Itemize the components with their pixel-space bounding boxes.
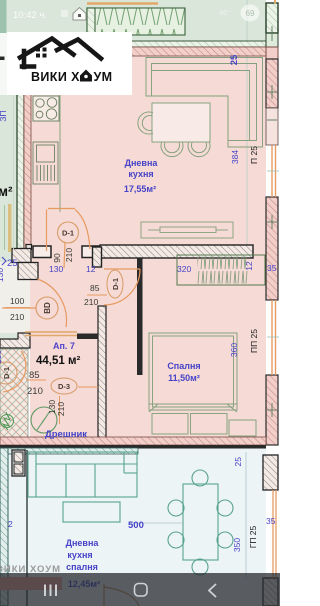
svg-text:85: 85 (29, 370, 40, 381)
wall hall/bedroom vertical (137, 258, 143, 375)
svg-text:130: 130 (0, 350, 3, 364)
svg-text:17,55м²: 17,55м² (124, 184, 156, 194)
svg-text:360: 360 (229, 343, 239, 357)
room texts (45, 158, 201, 589)
svg-text:12: 12 (86, 264, 96, 274)
wall dreshnik top segment (77, 334, 98, 340)
svg-text:Дрешник: Дрешник (45, 429, 87, 440)
top wall green hatch band (60, 41, 266, 47)
lower unit left wall (0, 448, 8, 606)
svg-text:кухня: кухня (128, 169, 153, 179)
right wall (266, 3, 278, 445)
blue dims (49, 263, 277, 531)
bottom wall pink hatch band (0, 437, 266, 445)
small black fragment left edge (0, 57, 5, 61)
svg-text:Спалня: Спалня (167, 361, 200, 371)
lower unit inner wall line (26, 450, 28, 606)
svg-text:320: 320 (177, 264, 191, 274)
pink band bottom left (0, 577, 62, 590)
bath crosshatch tiles (0, 349, 28, 443)
wall living/hall left blocks (33, 246, 51, 258)
svg-text:D-3: D-3 (58, 382, 70, 391)
svg-text:ЗП: ЗП (0, 110, 8, 121)
stair door leaf (8, 204, 12, 252)
svg-text:500: 500 (128, 520, 144, 531)
faint dim line right of railing (246, 0, 248, 250)
svg-text:спалня: спалня (66, 562, 98, 572)
svg-text:Ап. 7: Ап. 7 (53, 341, 75, 351)
white gap left of logo (0, 33, 9, 95)
terrace railing (87, 8, 185, 35)
door living D-1 (47, 209, 91, 269)
left wall green strip (17, 47, 24, 249)
dim line 500 (130, 522, 182, 524)
kitchen cabinet (33, 142, 58, 184)
dining table living (138, 103, 210, 157)
left stairwell mint strip (0, 0, 18, 340)
label D-1 bedroom rotated (107, 270, 123, 298)
faint mint line (13, 95, 15, 250)
teal block top-left (0, 0, 7, 33)
fraction lines (5, 295, 107, 424)
svg-text:210: 210 (56, 402, 66, 416)
svg-text:210: 210 (27, 386, 43, 397)
lower shaft boxes (12, 450, 25, 476)
terrace mint area top (6, 0, 266, 47)
label D-3 (51, 378, 77, 394)
plant bath (1, 412, 14, 430)
svg-text:D-1: D-1 (62, 229, 74, 238)
door arc lower unit (104, 584, 139, 606)
entry alcove light (0, 262, 30, 333)
svg-text:100: 100 (10, 296, 24, 306)
wall living/bedroom hatched band (100, 245, 253, 258)
svg-text:D-1: D-1 (111, 278, 120, 290)
top wall pink hatch band (18, 47, 266, 56)
orange tick top right (274, 0, 276, 4)
boiler circle (31, 407, 57, 433)
kitchen counter line (59, 95, 61, 212)
lower right wall blocks (263, 455, 278, 606)
label D-1 bath rotated (0, 362, 17, 384)
svg-text:ГП 25: ГП 25 (248, 525, 258, 548)
tv cabinet (141, 222, 233, 238)
svg-text:D-1: D-1 (2, 367, 11, 379)
svg-text:ВИКИ Х: ВИКИ Х (31, 70, 80, 84)
lower dining table (168, 470, 233, 575)
apartment pink floor (30, 47, 266, 445)
lower sofa (28, 452, 137, 497)
svg-text:25: 25 (229, 54, 240, 65)
nightstands (152, 414, 256, 437)
svg-text:130: 130 (49, 264, 63, 274)
nav bar (0, 573, 280, 606)
wall ties right (267, 26, 277, 417)
wardrobe hatch bedroom (177, 255, 265, 285)
wall bath top diagonal hatch (0, 333, 30, 348)
svg-text:35: 35 (267, 263, 277, 273)
svg-text:210: 210 (84, 297, 98, 307)
svg-text:25: 25 (233, 457, 243, 467)
logo (7, 32, 132, 95)
bath door arc (3, 351, 26, 392)
left wall pink strip (24, 47, 31, 249)
left wall jog block (26, 245, 32, 250)
living room window right (267, 145, 279, 197)
svg-text:384: 384 (230, 150, 240, 164)
svg-text:69: 69 (246, 9, 255, 18)
svg-text:Дневна: Дневна (66, 538, 100, 548)
status bar (13, 5, 260, 22)
wall step block (93, 247, 102, 267)
svg-text:2: 2 (8, 519, 13, 529)
dreshnik sliding door (25, 332, 77, 336)
svg-text:35: 35 (266, 516, 276, 526)
orange line top (87, 2, 158, 5)
door bedroom D-1 arc (104, 269, 140, 305)
door size numbers (10, 248, 100, 416)
svg-text:210: 210 (10, 312, 24, 322)
bottom wall dark line (0, 445, 266, 449)
entry lower hatch block (18, 263, 38, 280)
svg-text:210: 210 (64, 248, 74, 262)
bedroom window right (267, 300, 279, 375)
wall dreshnik/bedroom vertical (98, 306, 106, 445)
lower dim line vertical (245, 452, 247, 578)
svg-text:П 25: П 25 (249, 146, 259, 164)
black dims rotated (248, 146, 259, 548)
svg-text:Дневна: Дневна (125, 158, 159, 168)
sofa L living room (146, 58, 263, 148)
entry door BD arc (2, 279, 67, 327)
svg-text:ПП 25: ПП 25 (249, 329, 259, 353)
lower coffee table (63, 502, 120, 522)
svg-text:25: 25 (7, 258, 18, 269)
svg-text:44,51 м²: 44,51 м² (36, 355, 80, 367)
bed (149, 333, 237, 412)
svg-text:УМ: УМ (94, 70, 113, 84)
svg-text:BD: BD (43, 302, 52, 314)
lower window orange (273, 490, 276, 578)
svg-text:85: 85 (90, 283, 100, 293)
label D-1 living (58, 222, 79, 243)
lower unit teal hatch band (8, 448, 138, 454)
svg-text:кухня: кухня (67, 550, 92, 560)
svg-text:90: 90 (52, 253, 62, 263)
label BD rotated (36, 297, 58, 319)
svg-text:10:42 ч.: 10:42 ч. (13, 10, 47, 21)
svg-text:46⁺: 46⁺ (219, 10, 231, 17)
svg-text:11,50м²: 11,50м² (168, 373, 200, 383)
svg-text:12: 12 (244, 261, 254, 271)
boxed 25 left (2, 257, 18, 269)
svg-text:130: 130 (0, 268, 5, 282)
svg-text:м²: м² (0, 184, 13, 199)
svg-text:350: 350 (232, 538, 242, 552)
stove (33, 96, 59, 121)
lower apartment floor (8, 448, 266, 606)
